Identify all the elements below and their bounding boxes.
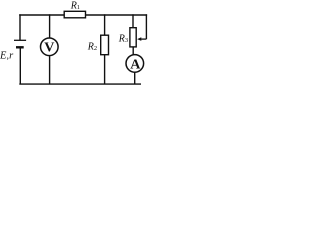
- wire: bottom rail: [19, 83, 141, 85]
- wire: voltmeter branch top: [49, 14, 51, 37]
- wire: R2 branch top: [104, 14, 106, 35]
- wire: left rail lower (battery to bottom): [19, 47, 21, 84]
- ammeter A: [126, 55, 144, 73]
- svg-text:E,r: E,r: [0, 50, 14, 61]
- rheostat R3: [130, 28, 136, 47]
- voltmeter V: [41, 38, 59, 56]
- wire: top rail: [19, 14, 147, 16]
- wire: R2 branch bottom: [104, 55, 106, 84]
- svg-text:R2: R2: [87, 41, 97, 52]
- wire: ammeter to bottom rail: [134, 73, 136, 84]
- wire: R3 branch top: [132, 14, 134, 27]
- battery E,r short thick plate: [16, 46, 24, 48]
- resistor R1: [64, 11, 85, 17]
- wire: R3 to ammeter: [132, 47, 134, 55]
- svg-text:R3: R3: [118, 33, 128, 44]
- svg-text:R1: R1: [70, 0, 80, 11]
- wire: left rail upper (to battery): [19, 14, 21, 40]
- battery E,r long plate: [14, 39, 26, 41]
- wire: right rail (to slider): [145, 14, 147, 39]
- svg-text:V: V: [44, 41, 54, 56]
- wire: voltmeter branch bottom: [49, 56, 51, 84]
- rheostat slider arrow: [140, 38, 146, 40]
- svg-text:A: A: [130, 57, 141, 72]
- resistor R2: [101, 35, 109, 55]
